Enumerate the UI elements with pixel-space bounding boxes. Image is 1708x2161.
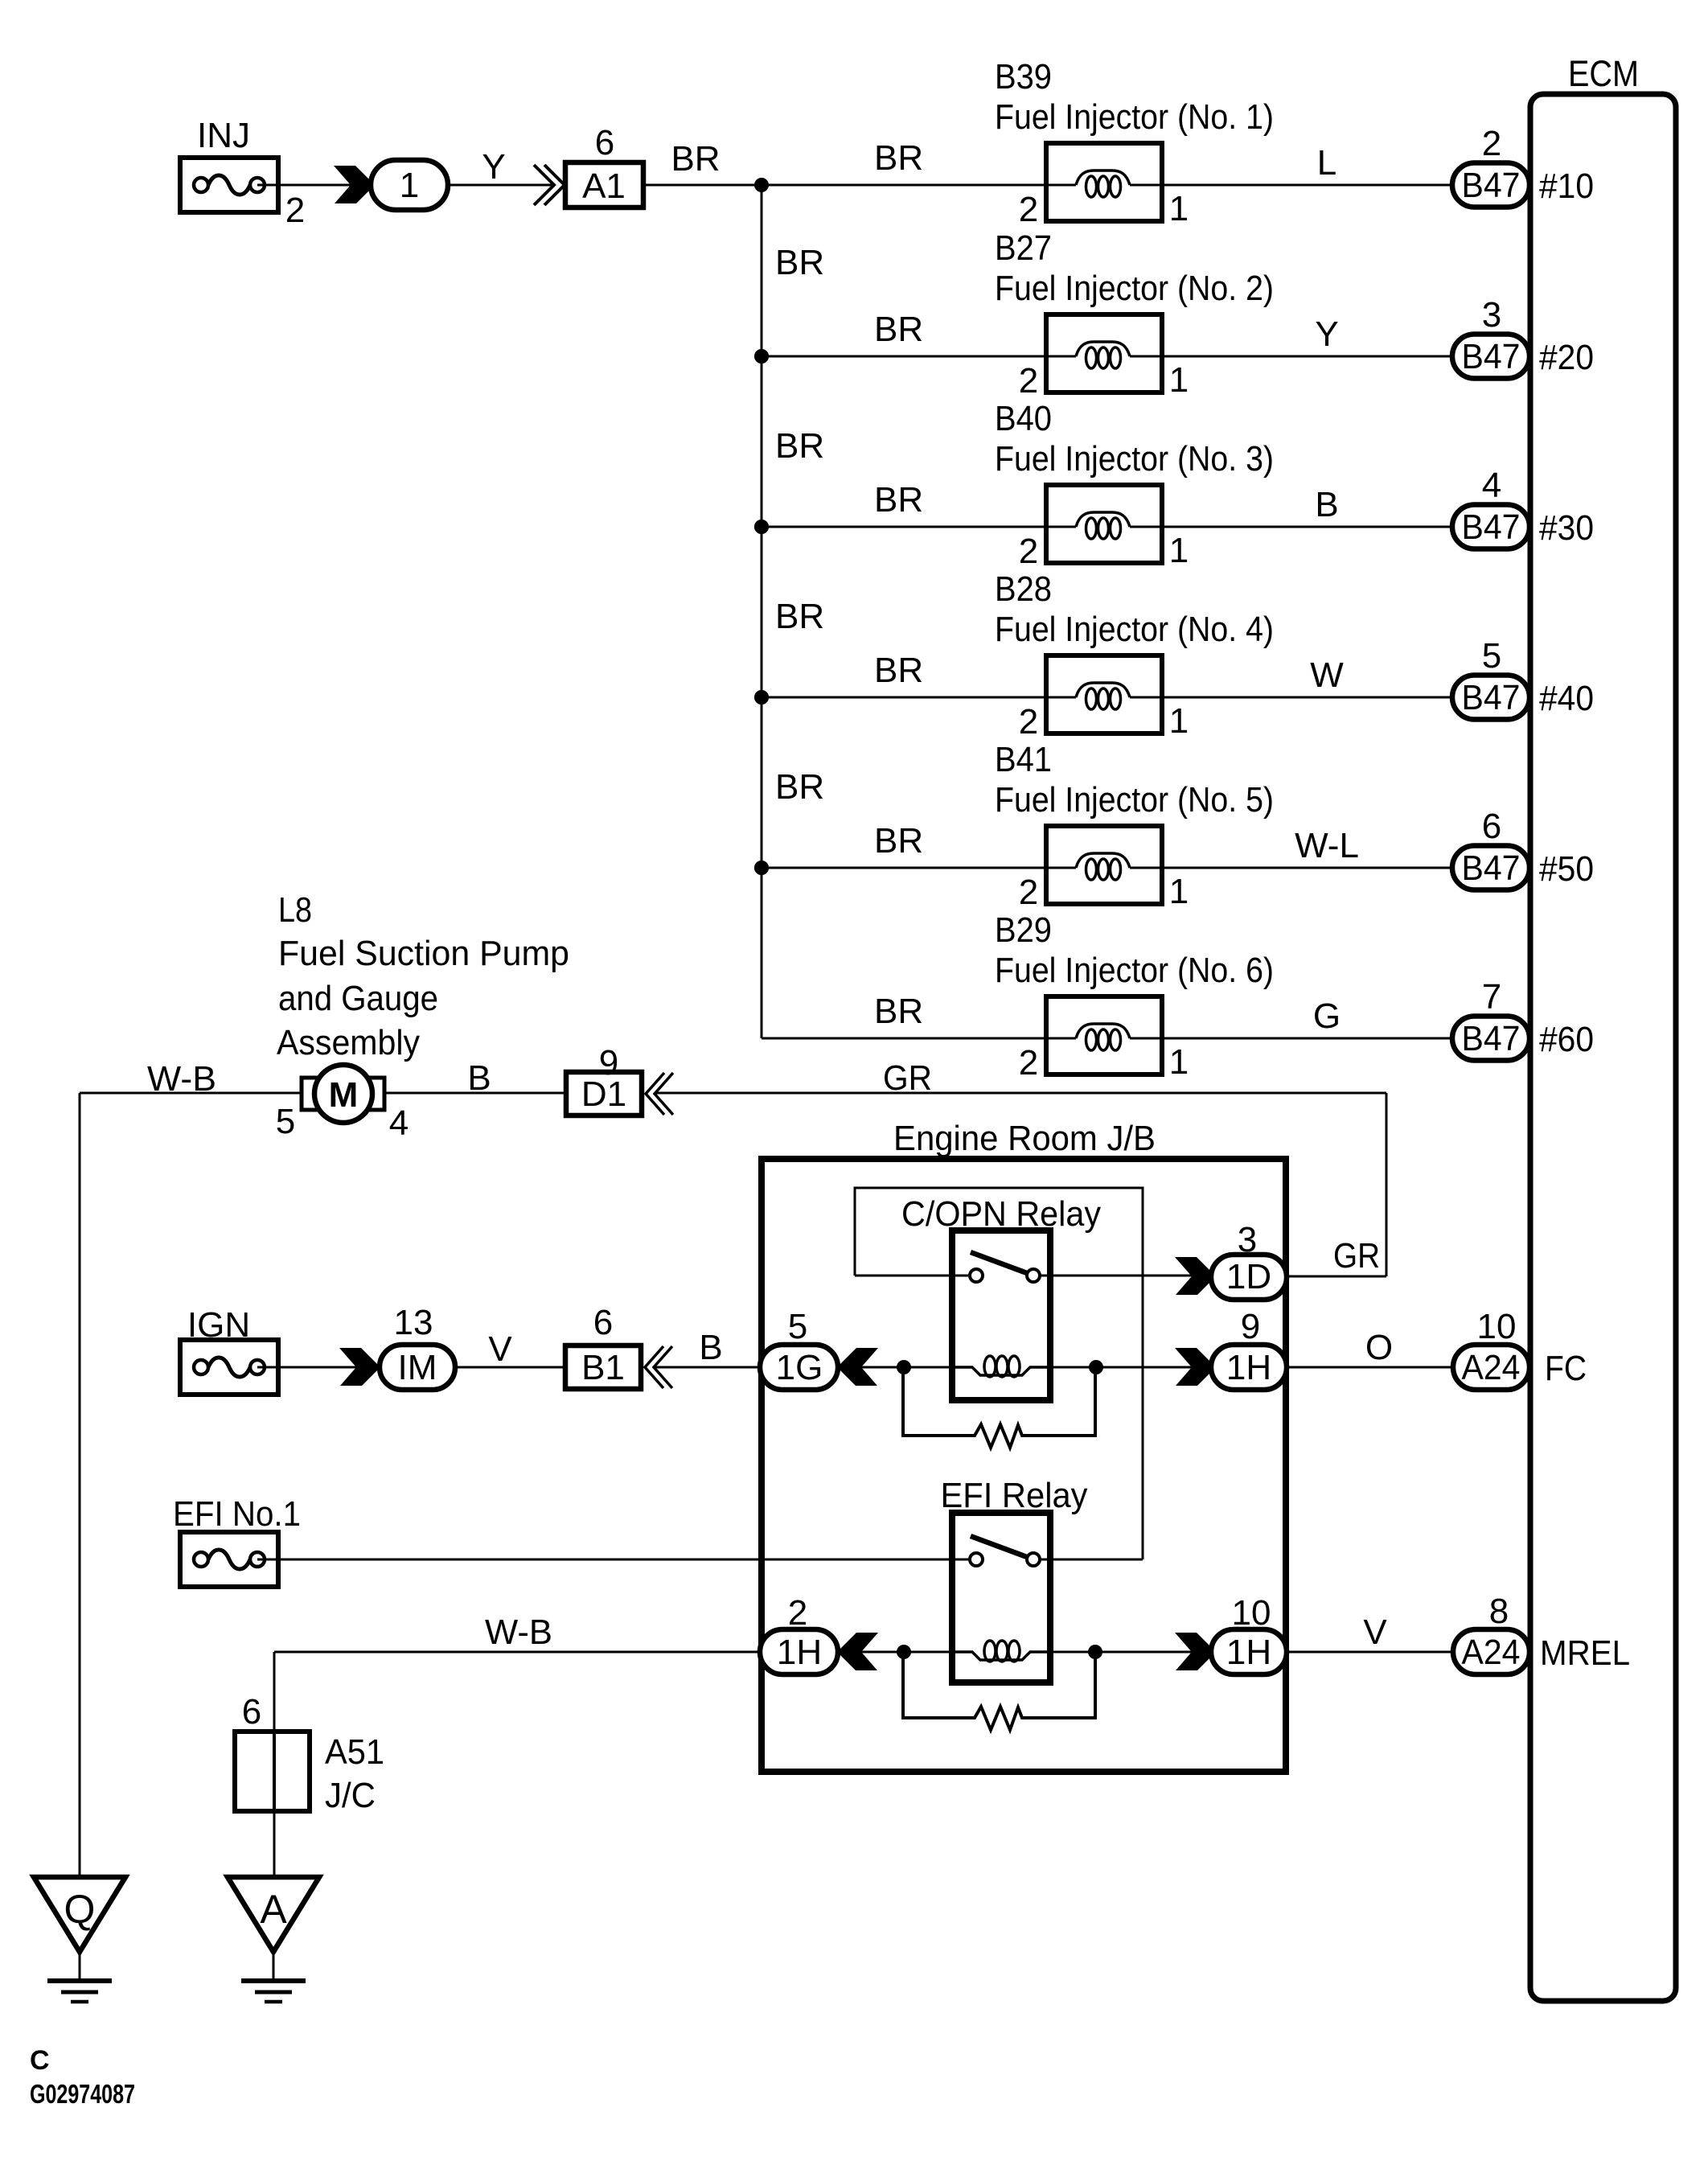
- label Fuel Injector (No. 1): [995, 97, 1274, 137]
- svg-text:B47: B47: [1462, 848, 1521, 888]
- label Fuel Injector (No. 2): [995, 269, 1274, 308]
- svg-text:7: 7: [1482, 977, 1501, 1017]
- svg-text:1H: 1H: [1226, 1633, 1271, 1672]
- Engine Room J/B box: [762, 1119, 1286, 1772]
- svg-text:1G: 1G: [776, 1348, 823, 1387]
- wire injector 4 to ECM, label W: [1162, 655, 1452, 697]
- svg-text:B40: B40: [995, 399, 1052, 438]
- svg-text:1H: 1H: [1226, 1348, 1271, 1387]
- ground A: [228, 1877, 319, 2002]
- svg-text:5: 5: [1482, 636, 1501, 676]
- svg-text:G02974087: G02974087: [30, 2079, 135, 2109]
- junction dot at branch row 2: [754, 349, 769, 364]
- connector 1H pin 2: [760, 1629, 838, 1674]
- svg-text:A51: A51: [325, 1732, 384, 1772]
- label 2 above 1H: [788, 1593, 807, 1633]
- svg-text:Fuel Injector (No. 6): Fuel Injector (No. 6): [995, 951, 1274, 990]
- svg-text:BR: BR: [775, 243, 824, 282]
- fuel injector No.6 B29: [1046, 996, 1162, 1074]
- junction dot right of C/OPN coil: [1089, 1360, 1103, 1374]
- pin 2 of injector 2: [1019, 361, 1038, 401]
- junction dot row 5: [754, 861, 769, 875]
- wire B1 to 1G, label B: [654, 1328, 762, 1367]
- label 6 above A1: [595, 123, 614, 162]
- C/OPN switch contact right: [1027, 1269, 1040, 1282]
- svg-text:Fuel Injector (No. 5): Fuel Injector (No. 5): [995, 780, 1274, 820]
- pin 2 of injector 6: [1019, 1043, 1038, 1083]
- svg-text:W-B: W-B: [147, 1059, 216, 1099]
- svg-text:10: 10: [1477, 1307, 1517, 1346]
- label EFI No.1: [173, 1494, 301, 1534]
- junction dot at branch row 5: [754, 861, 769, 875]
- wire injector 6 to ECM, label G: [1162, 996, 1452, 1038]
- wire 1H arrow to EFI coil: [861, 1651, 952, 1654]
- connector arrow into 1: [334, 166, 372, 203]
- label B28: [995, 569, 1052, 609]
- svg-text:1: 1: [1169, 531, 1189, 570]
- svg-text:V: V: [1363, 1613, 1387, 1652]
- label 8 above A24 pin 8: [1489, 1592, 1509, 1631]
- fuel injector No.4 B28: [1046, 655, 1162, 733]
- svg-text:2: 2: [1019, 532, 1038, 571]
- pin number 2: [1482, 124, 1501, 163]
- pin number 4: [1482, 466, 1501, 505]
- pin number 6: [1482, 807, 1501, 846]
- pin 4 of pump: [389, 1103, 409, 1143]
- C/OPN relay resistor: [903, 1367, 1095, 1448]
- svg-text:B28: B28: [995, 569, 1052, 609]
- svg-text:BR: BR: [671, 139, 720, 179]
- junction chevrons before A1: [534, 165, 565, 205]
- svg-text:B27: B27: [995, 228, 1052, 268]
- connector B1: [565, 1345, 641, 1389]
- EFI relay coil: [952, 1641, 1050, 1662]
- wire injector 5 to ECM, label W-L: [1162, 826, 1452, 868]
- connector B47 pin 7: [1452, 1017, 1529, 1061]
- junction dot at branch row 4: [754, 690, 769, 705]
- svg-text:W-B: W-B: [485, 1613, 552, 1652]
- svg-text:A24: A24: [1462, 1633, 1521, 1672]
- junction dot at branch row 1: [754, 178, 769, 192]
- pin number 5: [1482, 636, 1501, 676]
- svg-text:6: 6: [595, 123, 614, 162]
- pin 1 of injector 3: [1169, 531, 1189, 570]
- vertical BR branch bus: [761, 185, 763, 1038]
- svg-text:B47: B47: [1462, 166, 1521, 205]
- svg-text:EFI No.1: EFI No.1: [173, 1494, 301, 1534]
- arrow into 1H pin 9: [1175, 1348, 1213, 1386]
- fuse INJ: [180, 116, 278, 212]
- arrow after 1G: [840, 1348, 878, 1386]
- wire A1 to branch, label BR: [643, 139, 762, 185]
- svg-text:Fuel Injector (No. 2): Fuel Injector (No. 2): [995, 269, 1274, 308]
- svg-text:1: 1: [1169, 872, 1189, 911]
- svg-text:BR: BR: [874, 310, 923, 349]
- label Fuel Injector (No. 3): [995, 439, 1274, 479]
- svg-text:1D: 1D: [1226, 1257, 1271, 1296]
- wire oval1 to chevron, label Y: [448, 147, 555, 187]
- svg-text:A: A: [260, 1887, 287, 1932]
- svg-text:BR: BR: [874, 992, 923, 1031]
- wire branch to injector 5, label BR: [762, 821, 1076, 868]
- svg-text:B47: B47: [1462, 678, 1521, 717]
- label J/C: [325, 1776, 376, 1815]
- pin 2 of injector 3: [1019, 532, 1038, 571]
- svg-text:1: 1: [1169, 189, 1189, 228]
- label #10: [1539, 166, 1594, 206]
- label 6 above B1: [593, 1303, 613, 1342]
- svg-text:9: 9: [599, 1043, 618, 1083]
- svg-text:B: B: [1315, 485, 1338, 524]
- svg-text:5: 5: [276, 1102, 295, 1141]
- junction dot row 4: [754, 690, 769, 705]
- EFI Relay label: [941, 1476, 1088, 1515]
- svg-text:GR: GR: [883, 1058, 932, 1098]
- label L8: [278, 890, 312, 930]
- label BR on branch 3: [775, 426, 824, 466]
- junction dot row 2: [754, 349, 769, 364]
- connector B47 pin 5: [1452, 676, 1529, 720]
- wire coil to 1H: [1050, 1366, 1193, 1369]
- svg-text:B: B: [699, 1328, 722, 1367]
- svg-text:2: 2: [285, 191, 305, 230]
- svg-text:Fuel Injector (No. 1): Fuel Injector (No. 1): [995, 97, 1274, 137]
- svg-text:6: 6: [242, 1692, 261, 1732]
- svg-text:2: 2: [1019, 702, 1038, 742]
- junction dot row 3: [754, 520, 769, 534]
- arrow into 1H pin 10: [1175, 1633, 1213, 1670]
- svg-text:O: O: [1365, 1328, 1393, 1367]
- connector B47 pin 4: [1452, 505, 1529, 549]
- svg-text:BR: BR: [874, 821, 923, 861]
- vertical wire to ground Q: [79, 1093, 81, 1877]
- connector D1: [566, 1072, 642, 1115]
- svg-text:B47: B47: [1462, 1019, 1521, 1058]
- junction dot left of EFI coil: [897, 1645, 911, 1659]
- svg-text:Engine Room J/B: Engine Room J/B: [893, 1119, 1156, 1158]
- C/OPN relay coil: [952, 1356, 1050, 1377]
- svg-text:G: G: [1313, 996, 1341, 1036]
- connector B47 pin 3: [1452, 335, 1529, 379]
- label 9 above D1: [599, 1043, 618, 1083]
- wire branch to injector 2, label BR: [762, 310, 1076, 356]
- C/OPN relay label box wire: [855, 1188, 1143, 1559]
- label Fuel Suction Pump: [278, 934, 569, 973]
- svg-text:4: 4: [389, 1103, 409, 1143]
- label B29: [995, 910, 1052, 950]
- svg-text:B29: B29: [995, 910, 1052, 950]
- wire fuse INJ to arrow: [257, 184, 351, 187]
- label #60: [1539, 1020, 1594, 1059]
- svg-text:#40: #40: [1539, 679, 1594, 718]
- wire IM to B1, label V: [455, 1329, 565, 1369]
- svg-text:2: 2: [1019, 1043, 1038, 1083]
- label BR on branch 4: [775, 597, 824, 636]
- wire to C/OPN switch: [855, 1275, 968, 1277]
- label C/OPN Relay: [901, 1194, 1101, 1234]
- connector 1H pin 9: [1211, 1345, 1287, 1390]
- svg-text:B47: B47: [1462, 507, 1521, 547]
- svg-text:A1: A1: [582, 166, 626, 206]
- svg-text:B41: B41: [995, 740, 1052, 779]
- svg-text:INJ: INJ: [197, 116, 250, 155]
- svg-text:1: 1: [400, 166, 419, 205]
- label Fuel Injector (No. 5): [995, 780, 1274, 820]
- junction dot at branch row 3: [754, 520, 769, 534]
- svg-text:#10: #10: [1539, 166, 1594, 206]
- svg-text:Y: Y: [1315, 314, 1338, 354]
- svg-text:BR: BR: [874, 480, 923, 520]
- svg-text:13: 13: [394, 1303, 433, 1342]
- svg-text:1H: 1H: [777, 1633, 822, 1672]
- C/OPN switch blade: [971, 1252, 1027, 1273]
- label #40: [1539, 679, 1594, 718]
- label #20: [1539, 338, 1594, 377]
- svg-text:BR: BR: [874, 651, 923, 690]
- svg-text:BR: BR: [775, 767, 824, 807]
- fuse EFI No.1: [180, 1532, 278, 1587]
- label B40: [995, 399, 1052, 438]
- label 6 above A51: [242, 1692, 261, 1732]
- svg-text:M: M: [329, 1075, 359, 1115]
- pin 1 of injector 5: [1169, 872, 1189, 911]
- label B39: [995, 57, 1052, 97]
- pin number 3: [1482, 295, 1501, 335]
- pin number 7: [1482, 977, 1501, 1017]
- svg-text:Fuel Suction Pump: Fuel Suction Pump: [278, 934, 569, 973]
- connector A24 pin 8: [1453, 1629, 1529, 1674]
- svg-text:BR: BR: [775, 426, 824, 466]
- svg-text:B1: B1: [581, 1348, 625, 1387]
- wire branch to injector 1, label BR: [762, 138, 1076, 185]
- svg-text:W: W: [1310, 655, 1344, 695]
- label A51: [325, 1732, 384, 1772]
- connector B47 pin 2: [1452, 163, 1529, 207]
- ground Q: [34, 1877, 125, 2002]
- wire branch to injector 6, label BR: [762, 992, 1076, 1038]
- label 3 above 1D: [1238, 1220, 1257, 1259]
- label Assembly: [277, 1023, 420, 1062]
- label BR on branch 5: [775, 767, 824, 807]
- pin 2 of injector 5: [1019, 873, 1038, 912]
- EFI switch blade: [971, 1536, 1027, 1557]
- label BR on branch 2: [775, 243, 824, 282]
- svg-text:Fuel Injector (No. 3): Fuel Injector (No. 3): [995, 439, 1274, 479]
- label #30: [1539, 508, 1594, 548]
- wire C/OPN switch to 1D: [1041, 1275, 1193, 1277]
- fuel injector No.3 B40: [1046, 485, 1162, 563]
- fuel pump motor M L8: [302, 1065, 384, 1123]
- fuel injector No.1 B39: [1046, 143, 1162, 221]
- junction chevrons after B1: [645, 1346, 672, 1388]
- junction dot left of C/OPN coil: [897, 1360, 911, 1374]
- label 9 above 1H: [1241, 1307, 1260, 1346]
- svg-text:Q: Q: [64, 1887, 96, 1932]
- svg-text:5: 5: [788, 1307, 807, 1346]
- svg-text:IM: IM: [398, 1348, 437, 1387]
- EFI relay box: [952, 1513, 1050, 1682]
- svg-text:B39: B39: [995, 57, 1052, 97]
- svg-text:C: C: [30, 2045, 50, 2076]
- svg-text:8: 8: [1489, 1592, 1509, 1631]
- svg-text:#60: #60: [1539, 1020, 1594, 1059]
- connector A1: [565, 162, 643, 207]
- wire W-B left, label W-B: [80, 1059, 303, 1099]
- svg-text:#50: #50: [1539, 849, 1594, 889]
- svg-text:V: V: [488, 1329, 512, 1369]
- svg-text:2: 2: [1482, 124, 1501, 163]
- wire fuse IGN to arrow: [257, 1366, 357, 1369]
- junction connector A51 J/C: [235, 1732, 310, 1811]
- connector 1H pin 10: [1211, 1629, 1287, 1674]
- label Fuel Injector (No. 4): [995, 610, 1274, 649]
- svg-text:4: 4: [1482, 466, 1501, 505]
- wire fuse EFI to relay switch: [257, 1559, 968, 1561]
- wire branch to injector 3, label BR: [762, 480, 1076, 527]
- svg-text:IGN: IGN: [187, 1305, 250, 1345]
- svg-text:EFI Relay: EFI Relay: [941, 1476, 1088, 1515]
- svg-text:2: 2: [788, 1593, 807, 1633]
- ECM module outline: [1530, 53, 1676, 2001]
- svg-text:BR: BR: [775, 597, 824, 636]
- junction dot right of EFI coil: [1088, 1645, 1102, 1659]
- pin 2 of injector 4: [1019, 702, 1038, 742]
- fuel injector No.2 B27: [1046, 314, 1162, 392]
- label 2 below fuse INJ: [285, 191, 305, 230]
- label B27: [995, 228, 1052, 268]
- svg-text:W-L: W-L: [1295, 826, 1359, 865]
- svg-text:L: L: [1317, 143, 1336, 183]
- svg-text:L8: L8: [278, 890, 312, 930]
- label C: [30, 2045, 50, 2076]
- wire EFI coil to 1H pin 10: [1050, 1651, 1193, 1654]
- svg-text:Assembly: Assembly: [277, 1023, 420, 1062]
- svg-text:GR: GR: [1333, 1236, 1380, 1276]
- connector A24 pin 10: [1453, 1345, 1529, 1390]
- arrow after 1H pin 2: [840, 1633, 878, 1670]
- vertical wire to A51: [273, 1652, 276, 1732]
- wire injector 3 to ECM, label B: [1162, 485, 1452, 527]
- EFI switch contact right: [1027, 1553, 1040, 1566]
- svg-text:2: 2: [1019, 873, 1038, 912]
- wire pump to D1, label B: [384, 1058, 566, 1098]
- wire injector 1 to ECM, label L: [1162, 143, 1452, 185]
- wire GR to ECM side, label GR: [655, 1058, 1386, 1098]
- wire EFI switch right: [1041, 1559, 1143, 1561]
- svg-text:A24: A24: [1462, 1348, 1521, 1387]
- fuel injector No.5 B41: [1046, 826, 1162, 904]
- label MREL: [1540, 1633, 1630, 1673]
- svg-text:B47: B47: [1462, 337, 1521, 376]
- svg-text:3: 3: [1238, 1220, 1257, 1259]
- svg-text:#30: #30: [1539, 508, 1594, 548]
- svg-text:1: 1: [1169, 1042, 1189, 1082]
- arrow into 1D: [1175, 1257, 1213, 1295]
- corner row 6: [0, 0, 1, 1]
- pin 1 of injector 6: [1169, 1042, 1189, 1082]
- C/OPN relay box: [952, 1230, 1050, 1400]
- connector B47 pin 6: [1452, 846, 1529, 890]
- wire W-B to 1H, label W-B: [274, 1613, 764, 1652]
- svg-text:2: 2: [1019, 361, 1038, 401]
- svg-text:BR: BR: [874, 138, 923, 178]
- label 5 above 1G: [788, 1307, 807, 1346]
- connector 1G pin 5: [760, 1345, 838, 1390]
- wire A51 to ground A: [273, 1811, 276, 1877]
- label 10 above A24: [1477, 1307, 1517, 1346]
- pin 1 of injector 4: [1169, 701, 1189, 741]
- wire GR into 1D, label GR: [1287, 1236, 1386, 1276]
- svg-text:1: 1: [1169, 360, 1189, 400]
- label B41: [995, 740, 1052, 779]
- wire injector 2 to ECM, label Y: [1162, 314, 1452, 356]
- C/OPN switch contact left: [970, 1269, 983, 1282]
- label Fuel Injector (No. 6): [995, 951, 1274, 990]
- svg-text:9: 9: [1241, 1307, 1260, 1346]
- pin 1 of injector 1: [1169, 189, 1189, 228]
- label 13 above IM: [394, 1303, 433, 1342]
- connector 1D pin 3: [1211, 1255, 1287, 1300]
- svg-text:B: B: [467, 1058, 491, 1098]
- svg-text:FC: FC: [1545, 1349, 1587, 1388]
- EFI switch contact left: [970, 1553, 983, 1566]
- label #50: [1539, 849, 1594, 889]
- pin 5 of pump: [276, 1102, 295, 1141]
- EFI relay resistor: [903, 1652, 1095, 1730]
- svg-text:2: 2: [1019, 190, 1038, 229]
- connector oval 1: [371, 160, 448, 210]
- wire 1G arrow to C/OPN coil: [861, 1366, 952, 1369]
- svg-text:MREL: MREL: [1540, 1633, 1630, 1673]
- svg-text:Y: Y: [482, 147, 505, 187]
- junction chevrons after D1: [646, 1073, 673, 1115]
- label FC: [1545, 1349, 1587, 1388]
- svg-text:and Gauge: and Gauge: [278, 979, 438, 1018]
- svg-text:3: 3: [1482, 295, 1501, 335]
- svg-text:6: 6: [1482, 807, 1501, 846]
- svg-text:ECM: ECM: [1568, 53, 1639, 94]
- svg-text:J/C: J/C: [325, 1776, 376, 1815]
- label and Gauge: [278, 979, 438, 1018]
- wire branch to injector 4, label BR: [762, 651, 1076, 697]
- svg-text:10: 10: [1232, 1593, 1271, 1633]
- svg-text:1: 1: [1169, 701, 1189, 741]
- pin 2 of injector 1: [1019, 190, 1038, 229]
- svg-text:6: 6: [593, 1303, 613, 1342]
- svg-text:#20: #20: [1539, 338, 1594, 377]
- connector arrow into IM: [339, 1348, 378, 1386]
- svg-text:Fuel Injector (No. 4): Fuel Injector (No. 4): [995, 610, 1274, 649]
- connector IM: [380, 1345, 455, 1390]
- vertical GR wire down: [1386, 1093, 1388, 1276]
- label G02974087: [30, 2079, 135, 2109]
- label 10 above 1H pin 10: [1232, 1593, 1271, 1633]
- fuse IGN: [180, 1305, 278, 1395]
- wire 1H to A24, label O: [1287, 1328, 1453, 1367]
- wire 1H to A24 MREL, label V: [1287, 1613, 1453, 1652]
- pin 1 of injector 2: [1169, 360, 1189, 400]
